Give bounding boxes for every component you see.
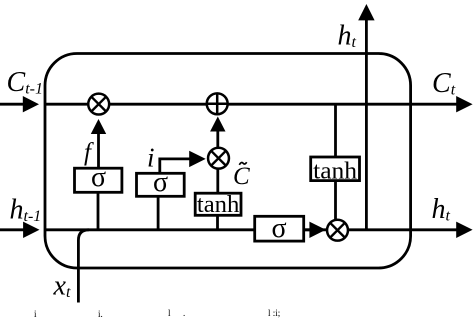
svg-text:.: .	[183, 308, 185, 318]
tanh box 1	[195, 192, 241, 218]
svg-text:tanh: tanh	[313, 159, 357, 185]
cell body rounded rectangle	[45, 54, 411, 269]
wire tanh2 output down to multiply node 3	[334, 181, 337, 220]
faint cropped caption at bottom	[34, 308, 280, 319]
svg-text:i: i	[147, 143, 155, 173]
svg-text:C: C	[233, 163, 250, 190]
wire riser h line to tanh1 box	[216, 215, 219, 230]
multiply node 2 (input gate)	[208, 148, 229, 169]
wire C line (cell state)	[0, 103, 30, 106]
wire h_t vertical branch up	[365, 19, 368, 230]
arrowhead C_t-1 entry	[23, 96, 39, 112]
wire h line (hidden state)	[0, 228, 30, 231]
wire sigma i output up and right toward multiply node 2	[160, 159, 191, 173]
wire sigma o output to multiply node 3	[304, 228, 311, 231]
wire riser h line to sigma i box	[157, 196, 160, 230]
wire C line branch down to tanh2	[334, 104, 337, 157]
sigma box o	[255, 213, 304, 244]
svg-text:i.: i.	[98, 309, 103, 319]
wire multiply node 2 up to add node	[216, 130, 219, 147]
arrowhead into multiply node 3	[309, 222, 325, 238]
arrowhead into multiply node 1	[91, 119, 106, 134]
wire sigma f output up to multiply node 1	[97, 131, 100, 168]
arrowhead h_t up	[358, 4, 374, 20]
arrowhead C_t exit	[456, 96, 472, 112]
sigma box f	[75, 162, 122, 193]
wire x_t input joining h line	[78, 230, 89, 303]
svg-text:l :i;: l :i;	[268, 308, 280, 318]
arrowhead h_t-1 entry	[23, 222, 39, 238]
multiply node 1 (forget gate)	[88, 94, 109, 115]
add node	[207, 93, 228, 114]
svg-text:σ: σ	[91, 162, 106, 193]
arrowhead into add node	[210, 117, 225, 132]
arrowhead h_t exit	[456, 222, 472, 238]
arrowhead into multiply node 2	[189, 151, 206, 167]
svg-text:tanh: tanh	[197, 192, 240, 218]
multiply node 3 (output gate)	[327, 220, 348, 241]
tanh box 2	[311, 157, 360, 185]
svg-text:σ: σ	[271, 213, 286, 244]
wire riser h line to sigma f box	[97, 192, 100, 230]
sigma box i	[137, 167, 185, 198]
svg-text:σ: σ	[153, 167, 168, 198]
wire tanh1 output up to multiply node 2	[216, 169, 219, 193]
